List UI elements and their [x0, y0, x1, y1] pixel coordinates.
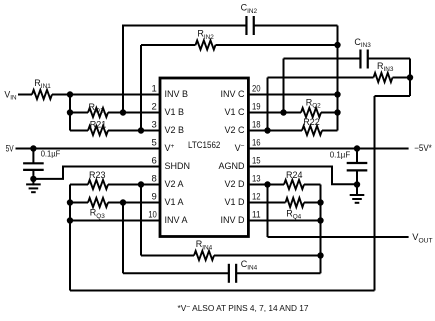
pin name V1 A / pin 9: [152, 192, 184, 208]
svg-text:INV C: INV C: [220, 89, 245, 99]
wire vertical V1 A down to CIN4: [122, 203, 124, 274]
resistor RIN2: [196, 29, 216, 50]
svg-text:8: 8: [152, 174, 157, 185]
svg-text:3: 3: [152, 120, 157, 131]
resistor RIN4: [194, 239, 214, 260]
wire bottom INV A loop: [70, 290, 375, 292]
svg-text:0.1µF: 0.1µF: [330, 149, 351, 159]
node junction V1 B / CIN2 tap: [120, 109, 126, 115]
svg-text:18: 18: [252, 120, 261, 131]
wire pin 15 AGND jog: [248, 167, 357, 185]
node junction RQ1 left: [67, 109, 73, 115]
wire CIN4 left segment: [123, 272, 229, 274]
svg-text:5: 5: [152, 138, 157, 149]
svg-text:5V: 5V: [6, 144, 14, 154]
svg-text:9: 9: [152, 192, 157, 203]
wire R21 row left: [70, 130, 88, 132]
node VIN label: [4, 89, 16, 101]
wire RIN3 right segment: [393, 77, 411, 79]
wire vertical INV A loop right: [374, 96, 376, 291]
pin name INV B / pin 1: [152, 84, 189, 100]
resistor R24: [284, 170, 304, 189]
wire CIN3 right segment: [368, 58, 410, 60]
svg-text:13: 13: [252, 174, 261, 185]
node junction INV A pin 10: [67, 217, 73, 223]
pin name V1 D / pin 12: [224, 192, 260, 208]
svg-text:R22: R22: [303, 117, 320, 127]
wire CIN4 right segment: [236, 272, 320, 274]
node junction INV B input: [67, 91, 73, 97]
wire vertical V1 C up to CIN3: [283, 59, 285, 113]
wire RIN2 right segment: [216, 44, 338, 46]
wire RIN3 left segment: [268, 77, 374, 79]
capacitor C bypass right 0.1uF: [330, 149, 368, 185]
resistor RIN1: [32, 78, 52, 99]
wire vertical CIN3 to RIN3 node: [409, 59, 411, 97]
node -5V* label: [414, 143, 432, 153]
pin name V2 A / pin 8: [152, 174, 184, 190]
wire vertical INV B node: [69, 95, 71, 131]
wire pin 20 INV C: [248, 94, 337, 96]
svg-text:12: 12: [252, 192, 261, 203]
node junction AGND/bypass: [354, 181, 360, 187]
node junction V2 B / RIN2 tap: [138, 127, 144, 133]
wire CIN2 left segment: [123, 25, 246, 26]
pin name V2 C / pin 18: [224, 120, 260, 136]
note V- also at pins: [178, 303, 309, 313]
pin name INV C / pin 20: [220, 84, 260, 100]
svg-text:0.1µF: 0.1µF: [41, 149, 61, 159]
wire vertical INV C riser: [337, 26, 339, 131]
resistor RIN3: [374, 61, 394, 82]
wire pin 18 V2 C: [248, 130, 302, 132]
node junction 5V bypass: [30, 145, 36, 151]
node junction V2 C / RIN3 tap: [264, 127, 270, 133]
svg-text:V1 D: V1 D: [224, 197, 245, 207]
node junction V1 C / CIN3 tap: [280, 109, 286, 115]
wire RQ2 to riser: [321, 112, 338, 114]
ground left: [26, 184, 41, 192]
wire vertical V2 A down to RIN4: [140, 185, 142, 256]
svg-text:20: 20: [252, 84, 261, 95]
svg-text:19: 19: [252, 102, 261, 113]
op-amp U1 LTC1562 IC body: [160, 78, 248, 237]
pin name V1 B / pin 2: [152, 102, 185, 118]
wire RIN4 right segment: [214, 255, 321, 257]
svg-text:16: 16: [252, 138, 261, 149]
capacitor CIN4: [229, 259, 258, 283]
pin name V− / pin 16: [235, 138, 261, 154]
svg-text:INV A: INV A: [165, 215, 188, 225]
wire R22 to riser: [322, 130, 338, 132]
node junction RIN4 to INV D riser: [317, 252, 323, 258]
svg-text:6: 6: [152, 156, 157, 167]
node junction RIN2 to INV C riser: [334, 42, 340, 48]
svg-text:*V− ALSO AT PINS 4, 7, 14 AND: *V− ALSO AT PINS 4, 7, 14 AND 17: [178, 303, 309, 313]
capacitor CIN2: [241, 3, 258, 35]
node junction SHDN tap: [30, 176, 36, 182]
wire vertical V2 B up to RIN2: [140, 45, 142, 131]
node junction RQ3 left: [67, 199, 73, 205]
wire VIN to RIN1: [18, 94, 32, 96]
svg-text:2: 2: [152, 102, 157, 113]
svg-text:LTC1562: LTC1562: [188, 140, 220, 151]
resistor RQ1: [88, 102, 108, 117]
resistor R21: [88, 119, 108, 135]
pin name INV D / pin 11: [220, 210, 260, 226]
node junction V2 A / RIN4 tap: [138, 181, 144, 187]
svg-text:V2 D: V2 D: [224, 179, 245, 189]
wire vertical INV D riser: [320, 185, 322, 274]
wire pin 13 V2 D: [248, 184, 284, 186]
wire R23 to pin 8 V2 A: [108, 184, 160, 186]
svg-text:1: 1: [152, 84, 157, 95]
svg-text:INV D: INV D: [220, 215, 245, 225]
wire R21 to pin 3 V2 B: [108, 130, 160, 132]
wire pin 10 INV A: [70, 220, 160, 222]
node junction INV C pin 20: [334, 91, 340, 97]
wire vertical V2 C up to RIN3: [267, 78, 269, 131]
node VOUT label: [412, 232, 432, 244]
capacitor C bypass left 0.1uF: [23, 149, 60, 186]
wire pin 12 V1 D: [248, 202, 285, 204]
wire RQ4 to riser: [304, 202, 321, 204]
wire 5V to pin 5 V+: [16, 148, 161, 150]
wire RIN4 left segment: [141, 255, 194, 257]
wire jog to INV A drop: [375, 95, 411, 97]
wire pin 11 INV D: [248, 220, 320, 222]
wire R23 row left corner: [70, 184, 88, 186]
node junction V2 D / VOUT tap: [264, 181, 270, 187]
svg-text:V1 A: V1 A: [165, 197, 184, 207]
node junction RQ4 right: [317, 199, 323, 205]
wire CIN3 left segment: [284, 58, 361, 60]
node junction INV D pin 11: [317, 217, 323, 223]
svg-text:AGND: AGND: [218, 161, 245, 171]
svg-text:V1 C: V1 C: [224, 107, 245, 117]
wire vertical INV A node left: [69, 185, 71, 291]
pin name AGND / pin 15: [218, 156, 260, 172]
wire RQ1 row left: [70, 112, 88, 114]
pin name SHDN / pin 6: [152, 156, 191, 172]
svg-text:R24: R24: [286, 170, 303, 180]
wire VOUT: [268, 236, 409, 238]
svg-text:V1 B: V1 B: [165, 107, 185, 117]
capacitor CIN3: [354, 37, 371, 69]
resistor RQ3: [88, 198, 108, 220]
svg-text:15: 15: [252, 156, 261, 167]
wire RQ3 row left: [70, 202, 88, 204]
wire CIN2 right segment: [254, 25, 338, 27]
ground right: [350, 185, 365, 203]
node 5V label: [6, 144, 14, 154]
pin name V1 C / pin 19: [224, 102, 260, 118]
pin name V+ / pin 5: [152, 138, 175, 154]
wire pin 16 V- to -5V: [248, 148, 408, 150]
wire RIN2 left segment: [141, 44, 196, 46]
resistor RQ2: [301, 98, 321, 118]
node junction V1 A / CIN4 tap: [120, 199, 126, 205]
svg-text:V2 A: V2 A: [165, 179, 184, 189]
wire vertical V2 D down to VOUT: [267, 185, 269, 238]
pin name INV A / pin 10: [148, 210, 187, 226]
node junction RIN3/CIN3: [407, 74, 413, 80]
pin name V2 B / pin 3: [152, 120, 185, 136]
resistor R23: [88, 170, 108, 189]
pin name V2 D / pin 13: [224, 174, 260, 190]
svg-text:R21: R21: [90, 119, 107, 129]
svg-text:INV B: INV B: [165, 89, 189, 99]
resistor R22: [302, 117, 322, 135]
wire SHDN jog: [33, 167, 160, 179]
wire R24 right corner: [304, 184, 321, 186]
svg-text:R23: R23: [89, 170, 106, 180]
svg-text:−5V*: −5V*: [414, 143, 432, 153]
svg-text:10: 10: [148, 210, 157, 221]
wire RQ3 to pin 9 V1 A: [108, 202, 160, 204]
svg-text:V2 C: V2 C: [224, 125, 245, 135]
svg-text:11: 11: [252, 210, 261, 221]
resistor RQ4: [286, 198, 305, 221]
wire RIN1 to pin 1 INV B: [52, 94, 160, 96]
wire RQ1 to pin 2 V1 B: [108, 112, 160, 114]
wire pin 19 V1 C: [248, 112, 301, 114]
svg-text:SHDN: SHDN: [165, 161, 191, 171]
svg-text:V2 B: V2 B: [165, 125, 185, 135]
node junction -5V bypass: [354, 145, 360, 151]
wire vertical V1 B up to CIN2: [122, 26, 124, 113]
node junction RQ2 right: [334, 109, 340, 115]
